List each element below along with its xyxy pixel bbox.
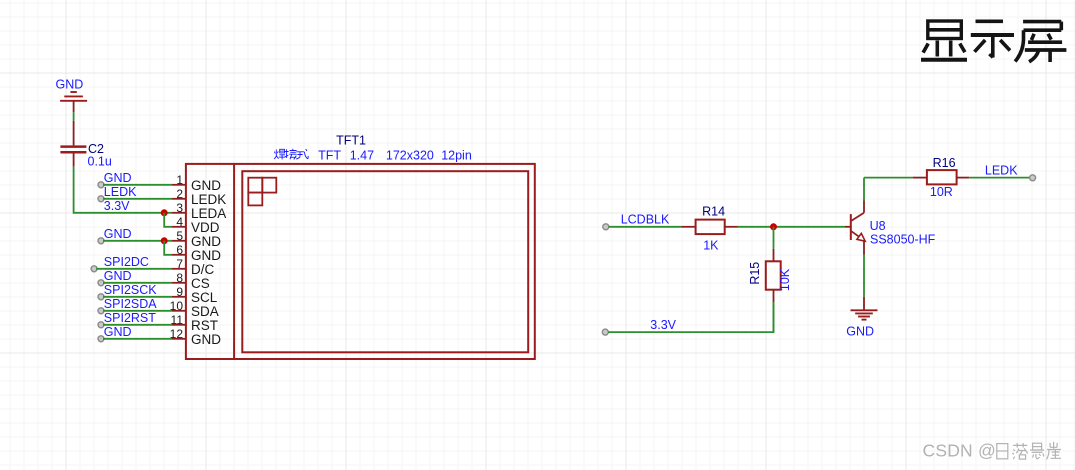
wire pin 3 to pin 4 <box>164 213 172 227</box>
resistor R14 pin 1 stub <box>682 226 696 228</box>
svg-text:LEDK: LEDK <box>985 163 1018 177</box>
svg-text:RST: RST <box>191 318 218 333</box>
resistor R14 pin 2 stub <box>725 226 738 228</box>
capacitor C2 pin 2 stub <box>73 154 75 167</box>
pin 8 stub <box>172 282 186 284</box>
svg-text:SPI2SDA: SPI2SDA <box>104 297 157 311</box>
transistor U8 SS8050-HF <box>851 213 865 242</box>
resistor R15 pin 2 stub <box>773 290 775 303</box>
svg-text:GND: GND <box>846 325 874 339</box>
wire emitter to GND <box>863 255 865 297</box>
svg-text:LEDA: LEDA <box>191 206 226 221</box>
junction node base/R15 <box>770 223 777 230</box>
svg-text:10R: 10R <box>930 185 953 199</box>
wire junction to R15 <box>773 227 775 249</box>
pin 7 stub <box>172 268 186 270</box>
terminal circle pin 5 <box>98 238 104 244</box>
svg-text:LEDK: LEDK <box>104 185 137 199</box>
wire collector up <box>863 178 865 201</box>
svg-text:VDD: VDD <box>191 220 220 235</box>
terminal circle LCDBLK <box>603 224 609 230</box>
svg-text:5: 5 <box>176 229 183 243</box>
svg-text:SPI2RST: SPI2RST <box>104 311 156 325</box>
svg-text:GND: GND <box>104 171 132 185</box>
pin 11 stub <box>172 324 186 326</box>
transistor Q/U8 base pin stub <box>845 226 850 228</box>
svg-text:R14: R14 <box>702 204 725 218</box>
terminal circle pin 9 <box>98 294 104 300</box>
ground symbol (emitter) <box>851 310 878 319</box>
svg-text:10K: 10K <box>778 268 792 291</box>
capacitor C2 pin 1 stub <box>73 121 75 146</box>
svg-text:172x320: 172x320 <box>386 148 434 162</box>
op-amp U1 body: TFT1 component outline <box>186 164 535 359</box>
pin 6 stub <box>172 254 186 256</box>
terminal circle LEDK <box>1030 175 1036 181</box>
TFT1 display area rectangle <box>242 171 528 352</box>
wire collector to R16 <box>864 177 913 179</box>
svg-text:GND: GND <box>56 78 84 92</box>
transistor collector pin stub <box>863 201 865 213</box>
svg-text:3: 3 <box>176 201 183 215</box>
svg-text:1.47: 1.47 <box>350 148 374 162</box>
svg-text:12pin: 12pin <box>441 148 472 162</box>
junction node GND (pin 5) <box>161 237 168 244</box>
svg-text:7: 7 <box>176 257 183 271</box>
svg-text:TFT1: TFT1 <box>336 134 366 148</box>
svg-text:TFT: TFT <box>318 148 341 162</box>
pin 1 stub <box>172 184 186 186</box>
svg-text:U8: U8 <box>870 219 886 233</box>
wire pin 9 <box>103 296 172 298</box>
resistor R14 <box>696 220 725 235</box>
wire 3.3V rail <box>608 302 773 332</box>
svg-text:1: 1 <box>176 173 183 187</box>
wire pin 8 <box>103 282 172 284</box>
pin 3 stub <box>172 212 186 214</box>
wire LCDBLK to R14 <box>609 226 682 228</box>
terminal circle pin 12 <box>98 336 104 342</box>
wire pin 10 <box>103 310 172 312</box>
transistor emitter pin stub <box>863 241 865 255</box>
resistor R15 <box>766 261 781 289</box>
wire pin 12 <box>103 338 172 340</box>
svg-text:10: 10 <box>170 299 184 313</box>
svg-text:GND: GND <box>104 227 132 241</box>
svg-text:2: 2 <box>176 187 183 201</box>
svg-text:SCL: SCL <box>191 290 218 305</box>
svg-text:R15: R15 <box>748 262 762 285</box>
svg-text:GND: GND <box>191 248 221 263</box>
svg-text:CS: CS <box>191 276 210 291</box>
svg-text:1K: 1K <box>703 238 719 252</box>
svg-text:8: 8 <box>176 271 183 285</box>
terminal circle pin 10 <box>98 308 104 314</box>
wire pin 2 <box>103 198 172 200</box>
title text 显示屏 (drawn strokes) <box>921 21 967 60</box>
svg-text:SPI2DC: SPI2DC <box>104 255 149 269</box>
terminal circle pin 8 <box>98 280 104 286</box>
wire C2 to pin 3 node <box>74 167 172 213</box>
wire pin 11 <box>103 324 172 326</box>
svg-text:D/C: D/C <box>191 262 215 277</box>
wire R14 to Q base <box>738 226 846 228</box>
resistor R16 pin 2 stub <box>957 177 970 179</box>
svg-text:11: 11 <box>171 313 184 327</box>
svg-text:9: 9 <box>176 285 183 299</box>
pin 4 stub <box>172 226 186 228</box>
svg-text:3.3V: 3.3V <box>104 199 130 213</box>
svg-text:SDA: SDA <box>191 304 219 319</box>
ground pin stub <box>73 101 75 113</box>
terminal circle pin 1 <box>98 182 104 188</box>
svg-text:GND: GND <box>191 332 221 347</box>
wire R16 to LEDK <box>969 177 1030 179</box>
resistor R16 <box>927 170 957 184</box>
subtitle CJK 焊接式 (drawn strokes) <box>274 149 308 160</box>
svg-text:GND: GND <box>104 325 132 339</box>
svg-text:R16: R16 <box>933 156 956 170</box>
resistor R15 pin 1 stub <box>773 249 775 261</box>
svg-text:4: 4 <box>176 215 183 229</box>
junction node 3.3V (pin 3) <box>161 209 168 216</box>
svg-text:CSDN @: CSDN @ <box>923 440 996 460</box>
resistor R16 pin 1 stub <box>913 177 927 179</box>
terminal circle pin 11 <box>98 322 104 328</box>
wire pin 5 <box>103 240 172 242</box>
wire GND to C2 <box>73 112 75 121</box>
terminal circle 3.3V <box>602 329 608 335</box>
capacitor C2 <box>60 147 86 153</box>
svg-text:6: 6 <box>176 243 183 257</box>
pin 2 stub <box>172 198 186 200</box>
ground symbol (top left, pointing up) <box>60 92 87 101</box>
svg-text:3.3V: 3.3V <box>650 318 676 332</box>
terminal circle pin 2 <box>98 196 104 202</box>
wire R15 to 3.3V rail <box>773 302 775 332</box>
TFT1 pin-name column divider <box>233 164 235 359</box>
svg-text:0.1u: 0.1u <box>88 155 112 169</box>
svg-text:GND: GND <box>191 234 221 249</box>
svg-text:SS8050-HF: SS8050-HF <box>870 232 936 246</box>
pin 5 stub <box>172 240 186 242</box>
svg-text:12: 12 <box>170 327 184 341</box>
ground pin stub (emitter) <box>863 297 865 311</box>
svg-text:LEDK: LEDK <box>191 192 226 207</box>
pin 9 stub <box>172 296 186 298</box>
wire pin 1 <box>103 184 172 186</box>
wire pin 5 to pin 6 <box>164 241 172 255</box>
svg-text:GND: GND <box>104 269 132 283</box>
pin 10 stub <box>172 310 186 312</box>
svg-text:LCDBLK: LCDBLK <box>621 212 670 226</box>
svg-text:SPI2SCK: SPI2SCK <box>104 283 157 297</box>
pin 12 stub <box>172 338 186 340</box>
terminal circle pin 7 <box>91 266 97 272</box>
svg-text:GND: GND <box>191 178 221 193</box>
wire pin 7 <box>96 268 172 270</box>
TFT1 connector glyph squares <box>248 178 276 206</box>
